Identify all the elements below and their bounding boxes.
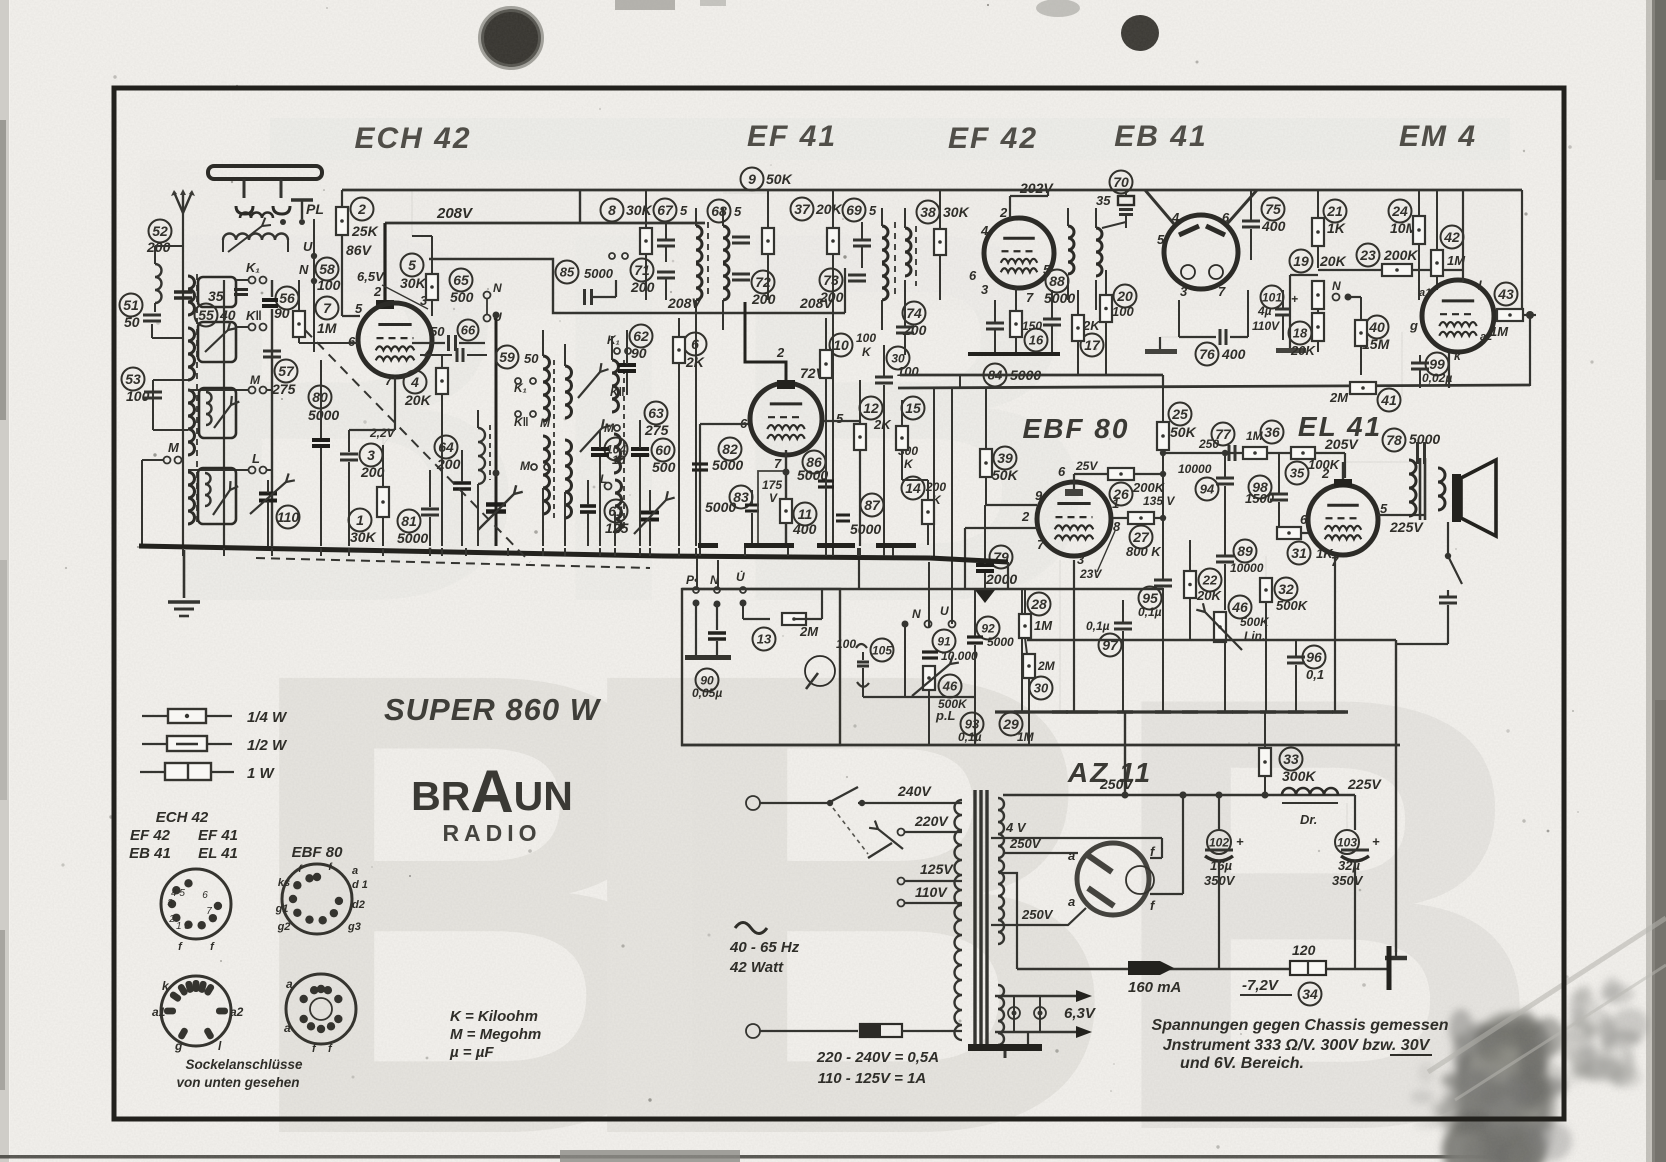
svg-text:300K: 300K — [1282, 768, 1316, 784]
wire cathode — [394, 377, 396, 430]
svg-text:85: 85 — [560, 265, 575, 280]
wire pin4 — [420, 354, 452, 356]
svg-text:6: 6 — [348, 334, 356, 349]
capacitor 81 5000 — [398, 510, 421, 533]
svg-text:2: 2 — [168, 914, 175, 925]
wire 208V vertical — [579, 190, 581, 223]
svg-text:50: 50 — [430, 324, 445, 339]
circled 57 275 — [275, 360, 298, 383]
svg-text:14: 14 — [905, 480, 921, 496]
svg-text:100: 100 — [126, 388, 150, 404]
svg-text:46: 46 — [1231, 599, 1248, 615]
bandfilter box1 — [198, 277, 236, 307]
screen wire — [1059, 560, 1061, 712]
right paper edge strip — [1652, 0, 1666, 1162]
stain bottom right big — [0, 0, 1, 1]
svg-text:EF 42: EF 42 — [948, 122, 1038, 155]
primary taps — [905, 802, 962, 804]
svg-text:120: 120 — [1292, 942, 1316, 958]
svg-text:a: a — [286, 977, 293, 991]
svg-text:275: 275 — [271, 381, 296, 397]
svg-text:27: 27 — [1132, 529, 1150, 545]
fuse 160mA — [1128, 961, 1174, 975]
circled 73 200 — [820, 269, 843, 292]
svg-text:3: 3 — [1077, 552, 1085, 567]
capacitor 60 500 — [652, 439, 675, 462]
resistor 8 30K — [601, 199, 624, 222]
svg-text:250V: 250V — [1021, 907, 1054, 922]
svg-text:7: 7 — [1037, 537, 1045, 552]
svg-text:25V: 25V — [1075, 459, 1098, 473]
choke Dr — [1282, 788, 1338, 795]
resistor 43 1M — [1495, 283, 1518, 306]
svg-text:91: 91 — [937, 634, 951, 648]
svg-text:220V: 220V — [914, 813, 949, 829]
ground bus EF42 — [968, 352, 1060, 356]
svg-text:25: 25 — [1171, 406, 1188, 422]
svg-text:50: 50 — [124, 314, 140, 330]
variable cap right gang — [641, 511, 659, 515]
svg-text:65: 65 — [453, 272, 469, 288]
svg-text:a: a — [284, 1021, 291, 1035]
svg-text:2: 2 — [1021, 509, 1030, 524]
svg-text:200: 200 — [819, 289, 844, 305]
socket AZ11 — [286, 974, 356, 1044]
svg-text:58: 58 — [319, 261, 335, 277]
tube EBF80 — [1037, 482, 1111, 556]
svg-text:+: + — [1372, 834, 1380, 849]
svg-text:50K: 50K — [766, 171, 793, 187]
svg-text:K: K — [904, 457, 914, 471]
svg-text:EB 41: EB 41 — [129, 845, 171, 862]
svg-text:20: 20 — [1116, 288, 1133, 304]
svg-text:35: 35 — [208, 288, 224, 304]
wire EM4 top — [1462, 190, 1464, 282]
svg-text:33: 33 — [1283, 751, 1299, 767]
svg-text:17: 17 — [1084, 337, 1101, 353]
wire grid AVC — [700, 423, 748, 425]
svg-text:7: 7 — [206, 906, 212, 917]
resistor 21 1K — [1324, 200, 1347, 223]
EF41 ground bars — [744, 543, 794, 548]
capacitor 96 01 — [1303, 646, 1326, 669]
svg-text:50: 50 — [524, 351, 539, 366]
ground bus left — [139, 546, 662, 556]
svg-text:37: 37 — [794, 201, 811, 217]
svg-text:PL: PL — [306, 201, 324, 217]
svg-text:86V: 86V — [346, 242, 373, 258]
svg-text:EB 41: EB 41 — [1114, 120, 1207, 153]
svg-text:50K: 50K — [992, 467, 1019, 483]
svg-text:5000: 5000 — [1044, 290, 1075, 306]
resistor 29 1M — [1000, 713, 1023, 736]
svg-text:12: 12 — [863, 400, 879, 416]
resistor 35 100K — [1286, 462, 1309, 485]
AZ11 output wire — [1182, 795, 1184, 894]
IF3 coils — [882, 226, 888, 262]
svg-text:62: 62 — [633, 328, 649, 344]
socket ECH42 family — [161, 869, 231, 939]
second osc transformer — [612, 360, 619, 412]
capacitor 102 16u — [1207, 830, 1231, 854]
svg-text:a1: a1 — [152, 1005, 166, 1019]
osc transformer coils — [543, 356, 550, 421]
svg-text:EM 4: EM 4 — [1399, 120, 1477, 153]
capacitor 94 10000 — [1196, 478, 1219, 501]
circled 74 200 — [903, 302, 926, 325]
svg-text:5: 5 — [680, 203, 688, 218]
svg-text:6: 6 — [1300, 512, 1308, 527]
svg-text:6: 6 — [202, 890, 208, 901]
svg-text:1M: 1M — [317, 320, 337, 336]
resistor 28 1M — [1028, 593, 1051, 616]
svg-text:94: 94 — [1200, 482, 1215, 497]
svg-text:10.000: 10.000 — [941, 649, 978, 663]
resistor 38 30K — [917, 201, 940, 224]
resistor 30 2M — [1030, 677, 1053, 700]
resistor 150 16 — [1010, 311, 1022, 337]
wire y453 line — [1163, 452, 1345, 454]
svg-text:0,1: 0,1 — [1306, 667, 1324, 682]
svg-text:4 5: 4 5 — [171, 888, 185, 899]
svg-text:ks: ks — [278, 877, 290, 889]
svg-text:41: 41 — [1380, 392, 1397, 408]
svg-text:2: 2 — [357, 201, 366, 217]
svg-text:6,5V: 6,5V — [357, 269, 385, 284]
svg-text:EBF 80: EBF 80 — [1023, 413, 1130, 444]
svg-text:-7,2V: -7,2V — [1242, 977, 1280, 994]
svg-text:78: 78 — [1386, 432, 1402, 448]
svg-text:5: 5 — [836, 411, 844, 426]
svg-text:84: 84 — [988, 368, 1003, 383]
upper bus extension — [930, 558, 1008, 562]
svg-text:+: + — [1236, 834, 1244, 849]
svg-text:ECH 42: ECH 42 — [156, 809, 209, 826]
capacitor 83 5000 — [730, 486, 753, 509]
wire cathode EF41 — [785, 450, 787, 499]
svg-text:K₁: K₁ — [246, 260, 260, 275]
svg-text:200K: 200K — [1383, 247, 1418, 263]
tube EF42 — [984, 218, 1054, 288]
socket EM4 — [161, 976, 231, 1046]
wire 225V — [1378, 514, 1425, 516]
IF1 caps — [657, 239, 675, 242]
earth ground — [183, 550, 186, 598]
svg-text:350V: 350V — [1332, 873, 1364, 888]
transformer primary — [955, 800, 962, 1040]
svg-text:1/4 W: 1/4 W — [247, 709, 288, 726]
wire grid top cap — [383, 223, 386, 302]
resistor 22 20K — [1184, 571, 1196, 598]
resistor 4 20K — [404, 371, 427, 394]
svg-text:0,1µ: 0,1µ — [958, 730, 982, 744]
legend resistor 1W — [140, 771, 234, 773]
resistor 18 20K — [1289, 322, 1312, 345]
svg-text:20K: 20K — [1319, 253, 1347, 269]
svg-text:125: 125 — [605, 520, 629, 536]
mains plug top — [746, 796, 760, 810]
center tap line — [999, 873, 1017, 969]
svg-text:100: 100 — [836, 637, 856, 651]
mains frequency symbol — [735, 923, 767, 934]
svg-text:100: 100 — [897, 364, 919, 379]
svg-text:5: 5 — [408, 257, 416, 273]
left paper edge — [0, 0, 9, 1162]
4V filament line — [991, 837, 1162, 839]
circled 88 5000 — [1046, 270, 1069, 293]
svg-text:EBF 80: EBF 80 — [292, 844, 344, 861]
svg-text:69: 69 — [846, 202, 862, 218]
capacitor 95 01u — [1154, 579, 1172, 582]
capacitor at 588 — [580, 504, 596, 508]
AVC bus 84 — [900, 374, 1163, 377]
svg-text:RADIO: RADIO — [442, 820, 541, 846]
svg-text:42: 42 — [1443, 229, 1460, 245]
svg-text:1M: 1M — [1490, 324, 1509, 339]
wire 5 to bus — [412, 235, 432, 237]
svg-text:110: 110 — [277, 509, 300, 525]
loop antenna bar — [208, 166, 322, 179]
svg-text:2K: 2K — [873, 417, 892, 432]
svg-text:K₁: K₁ — [607, 333, 620, 347]
svg-text:24: 24 — [1391, 203, 1408, 219]
svg-text:500K: 500K — [1276, 598, 1309, 613]
resistor 15 300K — [902, 397, 925, 420]
svg-text:28: 28 — [1030, 596, 1047, 612]
svg-text:7: 7 — [323, 300, 332, 316]
circled 55 40 — [195, 304, 218, 327]
svg-text:205V: 205V — [1324, 436, 1359, 452]
circled 69 5 — [843, 199, 866, 222]
circled 63 275 — [645, 402, 668, 425]
svg-text:d2: d2 — [352, 899, 365, 911]
resistor 42 1M — [1441, 226, 1464, 249]
capacitor 62 90 — [630, 325, 653, 348]
tube ECH42 — [358, 303, 432, 377]
svg-text:220 - 240V = 0,5A: 220 - 240V = 0,5A — [816, 1049, 939, 1066]
svg-text:73: 73 — [823, 272, 839, 288]
dashed core IF1 — [707, 222, 709, 296]
coil EB41 — [1096, 228, 1102, 276]
svg-text:6: 6 — [969, 268, 977, 283]
resistor 31 1K — [1279, 532, 1311, 534]
svg-text:500: 500 — [652, 459, 676, 475]
svg-text:200K: 200K — [1132, 480, 1166, 495]
svg-text:2: 2 — [373, 284, 382, 299]
svg-text:2: 2 — [1321, 466, 1330, 481]
capacitor 76 400 — [1196, 343, 1219, 366]
svg-text:EF 41: EF 41 — [198, 827, 238, 844]
circled 59 50 — [496, 346, 519, 369]
svg-text:30K: 30K — [626, 202, 653, 218]
wire 250V line — [1003, 794, 1355, 797]
svg-text:74: 74 — [906, 305, 922, 321]
svg-text:5000: 5000 — [308, 407, 339, 423]
svg-text:150: 150 — [1022, 319, 1042, 333]
svg-text:20K: 20K — [404, 392, 432, 408]
svg-text:K‖: K‖ — [246, 308, 262, 323]
svg-text:25K: 25K — [351, 223, 379, 239]
svg-text:2,2V: 2,2V — [369, 426, 396, 440]
svg-text:9: 9 — [1035, 488, 1043, 503]
svg-text:23: 23 — [1359, 247, 1376, 263]
svg-text:72: 72 — [755, 274, 771, 290]
coil antenna main — [188, 276, 195, 315]
svg-text:32: 32 — [1278, 581, 1294, 597]
svg-text:EF 41: EF 41 — [747, 120, 837, 153]
wire right drop — [1395, 640, 1397, 952]
coil EF42 input — [905, 228, 911, 276]
svg-text:400: 400 — [1261, 218, 1286, 234]
stain streak — [1428, 918, 1666, 1072]
potentiometer 46 volume — [923, 666, 935, 690]
tone switch — [1447, 522, 1449, 556]
svg-text:102: 102 — [1209, 835, 1229, 849]
capacitor 79 2000 — [990, 546, 1013, 569]
svg-text:35: 35 — [1096, 193, 1111, 208]
svg-text:500: 500 — [450, 289, 474, 305]
svg-text:16: 16 — [1029, 333, 1044, 348]
wire N — [1333, 294, 1340, 301]
capacitor 61 125 — [605, 500, 628, 523]
svg-text:g: g — [174, 1039, 183, 1053]
resistor 24 10M — [1389, 200, 1412, 223]
bandfilter box3 — [199, 388, 236, 438]
PL terminal — [291, 198, 313, 202]
paper grain noise — [0, 0, 1, 1]
wire 208V line — [385, 222, 705, 225]
transformer bottom ground — [1027, 1032, 1029, 1046]
svg-text:M = Megohm: M = Megohm — [450, 1026, 541, 1043]
capacitor 87 5000 — [861, 494, 884, 517]
svg-text:200: 200 — [630, 279, 655, 295]
circled 101 — [1261, 286, 1284, 309]
svg-text:2M: 2M — [1037, 659, 1056, 673]
bus ticks — [182, 548, 184, 556]
circled 7 1M — [316, 297, 339, 320]
resistor 25 50K — [1169, 403, 1192, 426]
oscillator coil — [478, 428, 485, 484]
resistor 10 100K — [830, 334, 853, 357]
svg-text:20K: 20K — [1290, 343, 1316, 358]
svg-text:18: 18 — [1293, 326, 1308, 341]
svg-text:39: 39 — [997, 450, 1013, 466]
svg-text:46: 46 — [942, 679, 958, 694]
svg-text:N: N — [912, 607, 921, 621]
resistor 32 500K — [1260, 578, 1272, 602]
capacitor 80 5000 — [309, 386, 332, 409]
svg-text:57: 57 — [278, 363, 295, 379]
svg-text:96: 96 — [1306, 649, 1322, 665]
svg-text:5000: 5000 — [584, 266, 614, 281]
svg-text:13: 13 — [757, 632, 772, 647]
svg-text:225V: 225V — [1347, 776, 1382, 792]
variable capacitor 110 — [259, 492, 277, 496]
circled 68 5 — [708, 200, 731, 223]
output transformer — [1409, 460, 1416, 516]
capacitor 56 90 — [276, 287, 299, 310]
svg-text:10: 10 — [833, 337, 849, 353]
svg-text:4µ: 4µ — [1257, 304, 1272, 318]
random speckles — [65, 567, 67, 569]
main wire 640 — [1027, 639, 1396, 641]
svg-text:125V: 125V — [920, 861, 954, 877]
svg-text:8: 8 — [608, 202, 616, 218]
svg-text:0,02µ: 0,02µ — [1422, 371, 1452, 385]
svg-text:1M: 1M — [1017, 730, 1035, 744]
resistor 40 15M — [1366, 316, 1389, 339]
svg-text:SUPER 860 W: SUPER 860 W — [384, 692, 602, 727]
svg-text:100: 100 — [317, 277, 341, 293]
capacitor 89 10000 — [1234, 540, 1257, 563]
svg-text:88: 88 — [1049, 273, 1065, 289]
svg-text:2: 2 — [999, 205, 1008, 220]
svg-text:81: 81 — [401, 513, 417, 529]
svg-text:22: 22 — [1202, 573, 1218, 588]
svg-text:200: 200 — [751, 291, 776, 307]
svg-text:g1: g1 — [275, 903, 289, 915]
svg-text:N: N — [299, 262, 309, 277]
svg-text:M: M — [520, 459, 531, 473]
svg-text:35: 35 — [1290, 466, 1305, 481]
svg-text:250V: 250V — [1009, 836, 1042, 851]
phono jack — [805, 656, 835, 686]
capacitor 91 10000 — [933, 630, 956, 653]
svg-text:208V: 208V — [667, 295, 702, 311]
svg-text:a: a — [1068, 894, 1075, 909]
svg-text:5: 5 — [869, 203, 877, 218]
svg-text:V: V — [769, 491, 778, 505]
capacitor 92 5000 — [977, 617, 1000, 640]
svg-text:Dr.: Dr. — [1300, 812, 1317, 827]
capacitor 103 32u — [1335, 830, 1359, 854]
svg-text:30K: 30K — [350, 529, 377, 545]
antenna transformer — [223, 234, 288, 241]
svg-text:6: 6 — [691, 336, 699, 352]
fuse — [860, 1024, 902, 1037]
legend resistor 1/2W — [142, 743, 232, 745]
svg-text:225V: 225V — [1389, 519, 1424, 535]
svg-text:M: M — [250, 373, 261, 387]
svg-text:90: 90 — [631, 345, 647, 361]
wire line 589 — [682, 588, 1163, 590]
svg-text:11: 11 — [798, 506, 813, 522]
capacitor 53 100 — [122, 368, 145, 391]
svg-text:von unten gesehen: von unten gesehen — [176, 1075, 299, 1090]
resistor 33 300K — [1259, 748, 1271, 776]
circled 78 5000 — [1383, 429, 1406, 452]
svg-text:4: 4 — [1171, 210, 1180, 225]
svg-text:2: 2 — [776, 345, 785, 360]
svg-text:Jnstrument 333 Ω/V. 300V bzw.: Jnstrument 333 Ω/V. 300V bzw. 30V — [1163, 1037, 1431, 1054]
resistor 1 30K — [349, 509, 372, 532]
svg-text:Spannungen gegen Chassis gemes: Spannungen gegen Chassis gemessen — [1152, 1017, 1449, 1034]
svg-text:99: 99 — [1429, 356, 1445, 372]
capacitor 3 200 — [360, 444, 383, 467]
resistor 27 800K — [1128, 512, 1154, 524]
tube AZ11 — [1077, 843, 1149, 915]
svg-text:0,1µ: 0,1µ — [1086, 619, 1110, 633]
svg-text:7: 7 — [1218, 284, 1226, 299]
capacitor 90 005u — [695, 603, 697, 657]
svg-text:+: + — [1291, 292, 1298, 306]
wire 85 5000 line — [429, 259, 646, 313]
svg-text:U̇: U̇ — [736, 569, 745, 584]
svg-text:30: 30 — [1034, 681, 1049, 696]
svg-text:56: 56 — [279, 290, 295, 306]
svg-text:275: 275 — [644, 422, 669, 438]
wire 208V mid — [646, 312, 845, 314]
